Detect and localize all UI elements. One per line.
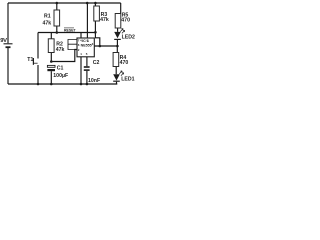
capacitor C1 electrolytic [47,65,68,79]
wire R2 riser top [50,33,52,39]
wire R1 riser top [56,3,58,10]
wire reset net horizontal [38,32,95,34]
wire C1 bottom [50,71,52,84]
wire top rail [8,2,121,4]
wire T1 column lower [37,65,39,84]
capacitor C2 [84,60,100,84]
svg-text:470: 470 [121,18,130,24]
resistor R4 [113,53,128,67]
svg-text:R1: R1 [44,14,51,20]
svg-text:T1: T1 [27,57,33,63]
svg-text:10nF: 10nF [88,78,100,84]
wire pin4 riser [80,33,82,39]
node R2/C1/pin2 [50,60,53,63]
wire R5 to LED2 [117,28,119,32]
svg-text:LED2: LED2 [122,35,135,41]
wire pin1 riser [80,57,82,84]
svg-text:C1: C1 [57,65,64,71]
svg-text:470: 470 [120,60,129,66]
resistor R5 [115,12,130,28]
svg-text:100µF: 100µF [53,73,68,79]
svg-text:47k: 47k [43,20,52,26]
wire C1 node to pin2 [51,50,77,62]
svg-text:LED1: LED1 [121,77,134,83]
LED2 [114,29,135,41]
resistor R1 [43,10,60,26]
wire R3 bottom jog to pin3 net [95,21,99,46]
wire battery top [7,3,9,43]
LED1 [113,71,134,83]
wire T1 column upper [37,33,39,59]
wire battery bottom [7,48,9,84]
svg-text:RESET: RESET [64,28,77,32]
wire pin3 net to R4 [116,46,118,53]
resistor R3 [94,6,109,23]
node dots [56,2,59,5]
wire pin8 riser [86,3,88,38]
svg-text:9V: 9V [0,38,7,44]
wire LED2 to pin3 net [116,40,118,46]
IC1 NE555 [77,38,94,57]
svg-text:C2: C2 [93,60,100,66]
wire pin5 riser to C2 [86,57,88,66]
wire pin7-6-2 ladder [68,40,77,50]
battery 9V [0,38,12,47]
wire R2 to C1 node [50,53,52,62]
wire R1 riser bottom [56,26,58,33]
wire R5 top corner [120,3,122,14]
wire LED1 to rail [116,82,118,84]
svg-text:47k: 47k [56,47,65,53]
switch T1 [27,57,37,65]
svg-text:47k: 47k [100,17,109,23]
wire C2 bottom [86,71,88,84]
wire bottom rail [8,83,117,85]
wire R3 riser top [94,3,96,6]
wire R4 to LED1 [115,67,117,75]
wire pin3 out [94,45,117,47]
svg-text:NE555: NE555 [81,44,92,48]
resistor R2 [48,39,64,53]
